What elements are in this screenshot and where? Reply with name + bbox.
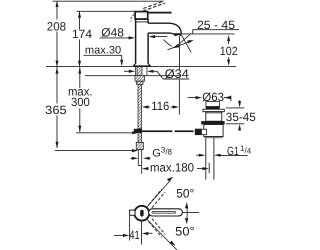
svg-text:102: 102 bbox=[220, 44, 238, 58]
svg-text:208: 208 bbox=[47, 20, 67, 34]
svg-text:50°: 50° bbox=[176, 187, 194, 201]
svg-text:41: 41 bbox=[129, 228, 140, 242]
svg-text:Ø63: Ø63 bbox=[202, 90, 224, 104]
svg-text:Ø34: Ø34 bbox=[165, 67, 189, 81]
svg-text:max.30: max.30 bbox=[85, 45, 121, 57]
svg-text:25 - 45: 25 - 45 bbox=[197, 18, 235, 32]
svg-text:365: 365 bbox=[45, 103, 67, 117]
svg-text:174: 174 bbox=[72, 27, 92, 41]
svg-text:Ø48: Ø48 bbox=[101, 26, 124, 40]
svg-text:50°: 50° bbox=[175, 225, 195, 239]
svg-text:35-45: 35-45 bbox=[226, 110, 256, 124]
svg-text:116: 116 bbox=[151, 99, 169, 113]
svg-text:300: 300 bbox=[71, 95, 90, 109]
svg-text:max.180: max.180 bbox=[150, 161, 194, 175]
